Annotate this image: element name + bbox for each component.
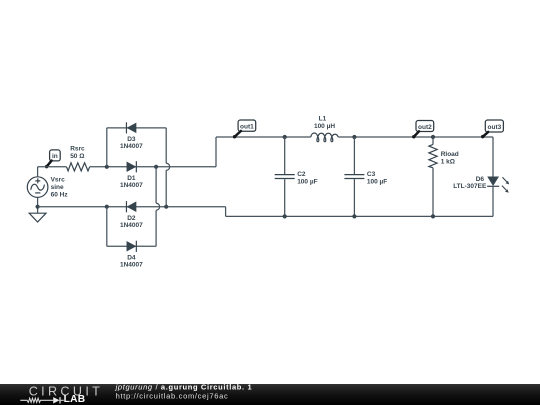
junction dot bridge lower-left [105,205,109,209]
wire hop at x156 y207 [156,203,160,210]
inductor L1 [311,133,338,142]
svg-text:D4: D4 [127,254,136,261]
wire D4 loop bottom [107,245,156,247]
svg-text:out1: out1 [240,124,254,131]
node out2 label [412,121,434,139]
ground [29,213,46,222]
wire D3 loop top [107,127,166,129]
wire Vsrc top stub [37,167,39,177]
svg-text:http://circuitlab.com/cej76ac: http://circuitlab.com/cej76ac [116,391,229,400]
wire top rail right segment [338,136,493,138]
svg-text:D3: D3 [127,136,136,143]
svg-text:1 kΩ: 1 kΩ [441,158,455,165]
node in label [45,150,60,168]
capacitor C3 [344,137,364,216]
svg-text:50 Ω: 50 Ω [70,153,84,160]
wire in node horizontal (source to Rsrc) [38,166,67,168]
wire hop at x166 y167 [166,163,170,170]
wire out1 riser [215,137,217,167]
svg-text:100 µF: 100 µF [297,179,317,186]
wire bridge vertical x156 with hop [155,167,157,247]
wire Rsrc to bridge [90,166,107,168]
diode D1 [127,161,136,172]
wire Vsrc bottom stub [37,197,39,213]
wire bridge vertical x166 with hop [165,128,167,207]
junction dot D1 cathode [154,165,158,169]
resistor Rsrc [67,163,90,171]
svg-text:60 Hz: 60 Hz [51,192,69,199]
LED arrow 2 [502,186,507,191]
svg-text:Vsrc: Vsrc [51,176,65,183]
svg-text:C3: C3 [367,171,376,178]
diode D4 [127,241,136,252]
svg-text:out3: out3 [488,124,502,131]
junction dot C3 top [352,135,356,139]
svg-text:D6: D6 [476,176,485,183]
LED D6 [487,137,509,216]
wire bridge left vertical upper [106,128,108,167]
LED arrow 1 [502,177,507,182]
wire bottom rail [226,215,493,217]
svg-text:Rload: Rload [441,151,459,158]
junction dot D2 anode [164,205,168,209]
svg-text:LTL-307EE: LTL-307EE [453,183,487,190]
junction dot Rload top [431,135,435,139]
svg-text:in: in [52,153,58,160]
wire bottom rail step [225,207,227,217]
svg-text:1N4007: 1N4007 [120,261,143,268]
junction dot source bottom [36,205,40,209]
resistor Rload [429,137,437,216]
svg-text:LAB: LAB [64,394,86,405]
svg-text:C2: C2 [297,171,306,178]
svg-text:Rsrc: Rsrc [70,146,85,153]
wire top rail left segment [216,136,311,138]
svg-text:L1: L1 [319,116,327,123]
svg-text:sine: sine [51,184,64,191]
svg-text:D1: D1 [127,175,136,182]
voltage source Vsrc [27,177,48,198]
node out3 label [481,120,503,138]
junction dot C2 top [283,135,287,139]
logo wire with resistor and diode [20,397,64,403]
svg-text:out2: out2 [418,124,432,131]
wire D1 row [107,166,216,168]
wire bridge left vertical lower [106,207,108,247]
svg-text:jptgurung / a.gurung Circuitla: jptgurung / a.gurung Circuitlab. 1 [115,382,253,391]
svg-text:1N4007: 1N4007 [120,143,143,150]
svg-text:100 µF: 100 µF [367,179,387,186]
junction dot C3 bottom [352,214,356,218]
svg-text:100 µH: 100 µH [314,123,335,130]
diode D2 [126,201,135,212]
svg-text:1N4007: 1N4007 [120,182,143,189]
junction dot C2 bottom [283,214,287,218]
svg-text:D2: D2 [127,215,136,222]
junction dot in-bridge left [105,165,109,169]
svg-text:1N4007: 1N4007 [120,222,143,229]
node out1 label [233,120,256,138]
junction dot Rload bottom [431,214,435,218]
capacitor C2 [275,137,295,216]
diode D3 [126,122,135,133]
wire D2 row [38,206,226,208]
